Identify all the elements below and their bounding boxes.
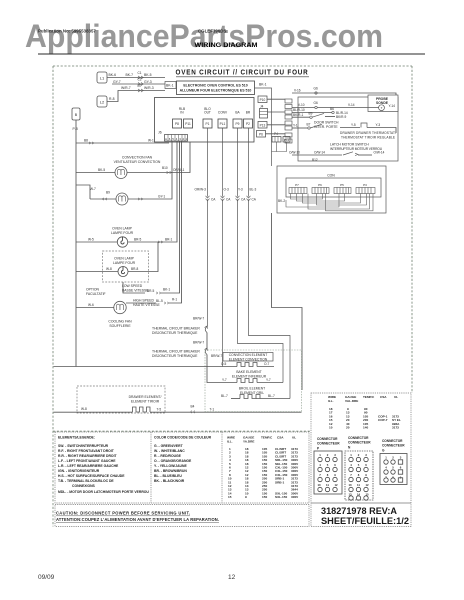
svg-text:Y-7: Y-7	[266, 378, 271, 382]
svg-text:GY-7: GY-7	[113, 80, 121, 84]
svg-text:P: P	[317, 447, 320, 451]
svg-text:T-1: T-1	[210, 408, 215, 412]
svg-text:ELEMENT CONVECTION: ELEMENT CONVECTION	[229, 357, 268, 361]
footer	[38, 574, 236, 581]
EOC right pin column	[285, 99, 292, 143]
svg-text:ELEMENTS/LEGENDE:: ELEMENTS/LEGENDE:	[58, 436, 95, 440]
svg-text:3: 3	[179, 137, 181, 141]
svg-text:1: 1	[385, 456, 387, 460]
svg-text:BR/W-7: BR/W-7	[193, 341, 204, 345]
svg-text:12: 12	[365, 483, 369, 487]
svg-text:THERMAL CIRCUIT BREAKER: THERMAL CIRCUIT BREAKER	[152, 350, 200, 354]
svg-text:6: 6	[365, 463, 367, 467]
drawer element heater	[133, 407, 151, 412]
convection heater	[237, 363, 257, 367]
svg-text:DRAWER ELEMENT/: DRAWER ELEMENT/	[129, 395, 162, 399]
svg-text:WIRING DIAGRAM: WIRING DIAGRAM	[195, 42, 258, 49]
svg-text:O-7: O-7	[264, 362, 270, 366]
svg-text:12: 12	[334, 483, 338, 487]
svg-text:ELEMENT TIROIR: ELEMENT TIROIR	[131, 400, 160, 404]
svg-text:BK-6: BK-6	[109, 73, 117, 77]
fuse symbol	[361, 123, 367, 128]
svg-text:ILL.: ILL.	[227, 440, 233, 444]
svg-text:OR/W-1: OR/W-1	[173, 168, 185, 172]
svg-text:BL-5: BL-5	[156, 299, 163, 303]
svg-text:L2: L2	[100, 100, 105, 105]
svg-text:9: 9	[334, 473, 336, 477]
con box	[286, 178, 381, 197]
wire L1 to EOC	[107, 77, 165, 79]
thermal breaker 2	[205, 349, 207, 355]
svg-text:BR/W-7: BR/W-7	[211, 354, 222, 358]
con routing loops	[286, 194, 373, 211]
wire PL1 drop	[222, 128, 224, 367]
svg-text:B: B	[75, 113, 78, 117]
svg-text:ELEMENT INFERIEUR: ELEMENT INFERIEUR	[232, 374, 267, 378]
svg-text:9: 9	[365, 473, 367, 477]
connector P11b	[283, 137, 290, 143]
right info box	[311, 393, 411, 527]
svg-text:OR/W-3: OR/W-3	[195, 188, 207, 192]
svg-text:FACULTATIF: FACULTATIF	[86, 292, 106, 296]
svg-text:P5: P5	[340, 183, 344, 187]
breaker L1	[97, 72, 107, 83]
svg-text:DOOR SWITCH: DOOR SWITCH	[314, 120, 339, 124]
svg-text:BK-1: BK-1	[163, 288, 170, 292]
svg-text:L1: L1	[100, 76, 105, 81]
top circuit area	[97, 68, 309, 167]
door switch blade	[312, 113, 324, 117]
wire fan2 to J6	[128, 141, 172, 199]
svg-text:BR: BR	[246, 111, 251, 115]
svg-text:Y-3: Y-3	[376, 123, 381, 127]
wire L2	[107, 91, 165, 102]
svg-text:3: 3	[334, 453, 336, 457]
connector CA 4	[247, 197, 251, 200]
wire lamp2 left	[76, 271, 118, 273]
svg-text:B8: B8	[84, 139, 88, 143]
svg-text:6: 6	[169, 137, 171, 141]
connector G diagram	[382, 439, 405, 453]
svg-text:P7: P7	[295, 183, 299, 187]
wire lamp1 left	[76, 241, 117, 243]
svg-text:N: N	[348, 446, 351, 450]
thermal breaker 1	[205, 327, 207, 333]
drawer element wires	[54, 411, 133, 413]
svg-text:O-3: O-3	[224, 188, 230, 192]
border top	[53, 65, 412, 67]
watermark	[25, 18, 383, 54]
svg-text:P6: P6	[259, 133, 263, 137]
svg-text:3: 3	[400, 456, 402, 460]
svg-text:SHEET/FEUILLE:1/2: SHEET/FEUILLE:1/2	[321, 516, 409, 526]
svg-text:OVEN LAMP: OVEN LAMP	[114, 257, 135, 261]
svg-text:G: G	[382, 449, 385, 453]
svg-text:318271978 REV:A: 318271978 REV:A	[321, 506, 398, 516]
svg-text:140: 140	[363, 426, 368, 430]
svg-text:11: 11	[357, 483, 360, 487]
svg-text:CSA: CSA	[380, 395, 387, 399]
caution box	[55, 505, 309, 527]
broil wire left stub	[231, 398, 240, 400]
switch area box	[298, 97, 398, 161]
svg-text:ELECTRONIC OVEN CONTROL ES 510: ELECTRONIC OVEN CONTROL ES 510	[183, 84, 247, 88]
svg-text:SXL-150: SXL-150	[275, 495, 287, 499]
svg-text:DISJONCTEUR THERMIQUE: DISJONCTEUR THERMIQUE	[152, 331, 198, 335]
svg-text:8: 8	[327, 473, 329, 477]
header rule	[38, 53, 425, 55]
wire P9 drop	[238, 128, 284, 383]
svg-text:5: 5	[327, 463, 329, 467]
svg-text:LATCH MOTOR SWITCH: LATCH MOTOR SWITCH	[330, 142, 369, 146]
svg-text:BASSE VITESSE: BASSE VITESSE	[122, 289, 149, 293]
svg-text:3: 3	[365, 453, 367, 457]
svg-text:HIGH SPEED: HIGH SPEED	[133, 299, 154, 303]
connector P13	[258, 122, 267, 129]
svg-text:2: 2	[327, 453, 329, 457]
svg-text:CONNECTEUR: CONNECTEUR	[317, 442, 340, 446]
svg-text:SOUFFLERIE: SOUFFLERIE	[109, 324, 131, 328]
svg-text:2: 2	[358, 453, 360, 457]
svg-text:P10: P10	[260, 98, 266, 102]
svg-text:5: 5	[392, 466, 394, 470]
svg-text:ATTENTION:COUPEZ L'ALIMENTATIO: ATTENTION:COUPEZ L'ALIMENTATION AVANT D'…	[56, 517, 219, 522]
svg-text:BK-5: BK-5	[98, 168, 105, 172]
broil heater	[240, 395, 260, 399]
convection wire left	[54, 366, 238, 368]
mini gauge table	[328, 395, 401, 430]
optional lamp dashed box	[103, 251, 149, 282]
svg-text:BK. - BLACK/NOIR: BK. - BLACK/NOIR	[154, 479, 185, 483]
svg-text:CGLEF396DS: CGLEF396DS	[198, 29, 226, 34]
svg-text:TEMP.C: TEMP.C	[363, 395, 375, 399]
svg-text:A: A	[165, 137, 167, 141]
svg-text:VENTILATEUR CONVECTION: VENTILATEUR CONVECTION	[114, 160, 161, 164]
svg-text:10: 10	[317, 483, 321, 487]
svg-text:UL: UL	[292, 436, 296, 440]
svg-text:BL. - BLUE/BLEU: BL. - BLUE/BLEU	[154, 474, 182, 478]
svg-text:CONNECTOR: CONNECTOR	[382, 439, 403, 443]
connector P6	[257, 131, 266, 138]
svg-text:P1: P1	[206, 122, 210, 126]
svg-text:L.R. - LEFT REAR/ARRIERE GAUCH: L.R. - LEFT REAR/ARRIERE GAUCHE	[58, 464, 119, 468]
svg-text:2: 2	[392, 456, 394, 460]
wire gauge table	[227, 436, 299, 500]
svg-text:15: 15	[228, 495, 232, 499]
wires P10/P13/P6 to column	[266, 99, 287, 151]
svg-text:3173: 3173	[392, 426, 399, 430]
svg-text:P-8: P-8	[73, 127, 78, 131]
svg-text:5: 5	[358, 463, 360, 467]
svg-text:CSA: CSA	[277, 436, 284, 440]
svg-text:Y-5: Y-5	[351, 123, 356, 127]
svg-text:T.B. - TERMINAL BLOCK/BLOC DE: T.B. - TERMINAL BLOCK/BLOC DE	[58, 479, 114, 483]
latch switch blade	[343, 152, 353, 155]
wire BL/R-10	[292, 112, 332, 114]
svg-text:R-8: R-8	[109, 97, 115, 101]
svg-text:CON: CON	[327, 174, 335, 178]
svg-text:BL-3: BL-3	[250, 188, 257, 192]
svg-text:HAUTE VITESSE: HAUTE VITESSE	[133, 303, 160, 307]
svg-text:W/R-7: W/R-7	[121, 86, 131, 90]
svg-text:TEMP.C: TEMP.C	[261, 436, 273, 440]
wire row 2	[112, 83, 165, 85]
svg-text:BL-7: BL-7	[221, 394, 228, 398]
svg-text:P2: P2	[246, 122, 250, 126]
svg-text:P3: P3	[363, 183, 367, 187]
svg-text:7: 7	[350, 473, 352, 477]
wire V-16	[292, 93, 396, 95]
svg-text:SW. - SWITCH/INTERRUPTEUR: SW. - SWITCH/INTERRUPTEUR	[58, 444, 109, 448]
con outer box	[277, 166, 386, 213]
svg-text:1: 1	[319, 453, 321, 457]
drawer element dashed box	[77, 386, 165, 413]
svg-text:COLOR CODE/CODE DE COULEUR: COLOR CODE/CODE DE COULEUR	[154, 436, 212, 440]
breaker L2	[97, 96, 107, 107]
svg-text:W/R-3: W/R-3	[144, 86, 154, 90]
EOC title box	[177, 81, 255, 95]
svg-text:R. - RED/ROUGE: R. - RED/ROUGE	[154, 454, 182, 458]
svg-text:Y. - YELLOW/JAUNE: Y. - YELLOW/JAUNE	[154, 464, 187, 468]
svg-text:BL/R-10: BL/R-10	[293, 108, 305, 112]
bottom bus wire	[150, 411, 302, 413]
svg-text:20: 20	[346, 426, 350, 430]
svg-text:C2: C2	[138, 78, 142, 82]
wire CON return	[272, 213, 303, 390]
svg-text:W. - WHITE/BLANC: W. - WHITE/BLANC	[154, 449, 185, 453]
svg-text:4: 4	[319, 463, 321, 467]
wire lamp2 right	[128, 242, 158, 272]
svg-text:T-5: T-5	[157, 408, 162, 412]
svg-text:OUT: OUT	[204, 111, 211, 115]
svg-text:DISJONCTEUR THERMIQUE: DISJONCTEUR THERMIQUE	[152, 354, 198, 358]
svg-text:B4: B4	[191, 405, 195, 409]
svg-text:UL: UL	[394, 395, 398, 399]
svg-text:V-16: V-16	[294, 89, 301, 93]
svg-text:C1: C1	[138, 71, 142, 75]
oven circuit title underline	[176, 76, 309, 78]
broil wire right	[256, 398, 290, 400]
wire B8 bus row	[76, 142, 169, 144]
svg-text:BR-5: BR-5	[147, 289, 154, 293]
svg-text:L.F. - LEFT FRONT/AVANT GAUCHE: L.F. - LEFT FRONT/AVANT GAUCHE	[58, 459, 116, 463]
wire Y-1 latch switch	[292, 127, 308, 129]
connector CA 3	[236, 197, 240, 200]
svg-text:O/W-14: O/W-14	[314, 150, 325, 154]
svg-text:THERMAL CIRCUIT BREAKER: THERMAL CIRCUIT BREAKER	[152, 327, 200, 331]
border bottom	[53, 430, 311, 432]
svg-text:OVEN LAMP: OVEN LAMP	[112, 227, 133, 231]
svg-text:G6: G6	[314, 101, 318, 105]
svg-text:CONNECTEUR: CONNECTEUR	[348, 441, 371, 445]
svg-text:D7: D7	[138, 84, 142, 88]
svg-text:COOLING FAN: COOLING FAN	[108, 320, 132, 324]
right switch area	[289, 87, 398, 162]
svg-text:G. - GREEN/VERT: G. - GREEN/VERT	[154, 444, 184, 448]
wire cooling fan left	[76, 307, 114, 309]
svg-text:CA: CA	[241, 198, 246, 202]
svg-text:BL-7: BL-7	[268, 394, 275, 398]
wire lamp1 right	[128, 141, 177, 242]
svg-text:LAMPE FOUR: LAMPE FOUR	[111, 231, 134, 235]
border right	[411, 66, 413, 393]
svg-text:T: T	[381, 106, 383, 110]
wire fan1 to EOC	[127, 142, 190, 173]
outer dashed border	[53, 66, 412, 527]
svg-text:W-1: W-1	[148, 139, 154, 143]
wire P1 drop	[207, 128, 209, 327]
connector P10	[258, 96, 267, 103]
svg-text:CAUTION: DISCONNECT POWER BEFO: CAUTION: DISCONNECT POWER BEFORE SERVICI…	[56, 511, 190, 516]
svg-text:Publication No: 5995538357: Publication No: 5995538357	[38, 29, 96, 34]
con area	[277, 166, 386, 213]
svg-text:COP-7: COP-7	[378, 418, 388, 422]
connector CA 1	[206, 197, 210, 200]
lower fan motor	[116, 193, 128, 205]
svg-text:OPTION: OPTION	[86, 288, 100, 292]
svg-text:BR-5: BR-5	[134, 238, 141, 242]
neutral bus wire	[75, 120, 77, 367]
svg-text:P9: P9	[236, 122, 240, 126]
svg-text:BK-2: BK-2	[278, 199, 285, 203]
svg-text:5: 5	[172, 137, 174, 141]
wire BK/R-1 door switch	[292, 116, 310, 118]
legend divider 1	[150, 432, 152, 503]
svg-text:SRB-1: SRB-1	[275, 480, 285, 484]
svg-text:O-5: O-5	[221, 362, 227, 366]
EOC label box BK-1	[165, 82, 176, 89]
svg-text:4: 4	[385, 466, 387, 470]
svg-text:W-6: W-6	[88, 303, 94, 307]
probe sensor	[379, 105, 385, 111]
svg-text:BR/W-7: BR/W-7	[193, 317, 204, 321]
svg-text:PL1: PL1	[220, 122, 226, 126]
svg-text:O. - ORANGE/ORANGE: O. - ORANGE/ORANGE	[154, 459, 192, 463]
svg-text:BK-7: BK-7	[126, 73, 134, 77]
convection fan motor	[115, 167, 127, 179]
svg-text:BK-1: BK-1	[166, 84, 174, 88]
svg-text:P8: P8	[175, 122, 179, 126]
svg-text:H.S. - HOT SURFACE/SURFACE CHA: H.S. - HOT SURFACE/SURFACE CHAUDE	[58, 474, 125, 478]
svg-text:IGN. - IGNITOR/IGNITEUR: IGN. - IGNITOR/IGNITEUR	[58, 469, 100, 473]
svg-text:W-8: W-8	[81, 407, 87, 411]
convection wire right	[257, 366, 274, 368]
svg-text:IN: IN	[180, 111, 184, 115]
svg-text:Y-14: Y-14	[389, 104, 396, 108]
bake wire right	[257, 382, 283, 384]
wire BK-1 to CON	[255, 88, 272, 166]
svg-text:150: 150	[262, 495, 267, 499]
svg-text:MDL. - MOTOR DOOR LATCH/MOTEUR: MDL. - MOTOR DOOR LATCH/MOTEUR PORTE VER…	[58, 490, 149, 494]
svg-text:GY-3: GY-3	[144, 80, 152, 84]
svg-text:7: 7	[319, 473, 321, 477]
color code column	[154, 436, 212, 484]
svg-text:W-8: W-8	[106, 267, 112, 271]
legend box	[55, 432, 309, 503]
svg-text:6: 6	[400, 466, 402, 470]
cooling fan motor	[114, 301, 126, 313]
connector N diagram	[348, 436, 371, 450]
wire V-10	[292, 107, 379, 109]
EOC body box	[155, 98, 255, 143]
svg-text:CA: CA	[211, 198, 216, 202]
bottom tables	[55, 393, 411, 527]
svg-text:11: 11	[326, 483, 329, 487]
svg-text:2: 2	[183, 137, 185, 141]
svg-text:OVEN CIRCUIT // CIRCUIT DU FOU: OVEN CIRCUIT // CIRCUIT DU FOUR	[176, 68, 309, 77]
svg-text:O/W-10: O/W-10	[289, 150, 300, 154]
svg-text:BA: BA	[235, 111, 240, 115]
svg-text:R.R. - RIGHT REAR/ARRIERE DROI: R.R. - RIGHT REAR/ARRIERE DROIT	[58, 454, 118, 458]
svg-text:O/W-14: O/W-14	[374, 150, 385, 154]
svg-text:B9: B9	[309, 112, 313, 116]
legend column text	[58, 436, 149, 495]
svg-text:ALLUMEUR FOUR ELECTRONIQUE ES: ALLUMEUR FOUR ELECTRONIQUE ES 510	[180, 89, 252, 93]
svg-text:ILL.: ILL.	[328, 399, 334, 403]
svg-text:BR. - BROWN/BRUN: BR. - BROWN/BRUN	[154, 469, 187, 473]
svg-text:CONNECTOR: CONNECTOR	[348, 436, 369, 440]
svg-text:300V: 300V	[291, 495, 299, 499]
wire O/W latch	[292, 154, 342, 156]
left components	[54, 108, 302, 413]
svg-text:P11: P11	[185, 122, 191, 126]
svg-text:1: 1	[350, 453, 352, 457]
svg-text:B10: B10	[162, 166, 168, 170]
connector P diagram	[317, 437, 340, 451]
svg-text:J4: J4	[260, 105, 264, 109]
svg-text:J6: J6	[158, 131, 162, 135]
svg-text:CA: CA	[226, 198, 231, 202]
part number box	[311, 502, 411, 504]
svg-text:BK/R-9: BK/R-9	[336, 115, 347, 119]
probe box	[368, 95, 398, 112]
svg-text:W-5: W-5	[88, 238, 94, 242]
border left	[52, 66, 54, 527]
svg-text:Y-7: Y-7	[222, 378, 227, 382]
svg-text:BR-1: BR-1	[165, 238, 172, 242]
svg-text:B7: B7	[307, 122, 311, 126]
legend divider 2	[221, 432, 223, 503]
svg-text:6: 6	[334, 463, 336, 467]
svg-text:BK/R-1: BK/R-1	[293, 113, 304, 117]
svg-text:8: 8	[358, 473, 360, 477]
svg-text:4: 4	[176, 137, 178, 141]
svg-text:Y-1: Y-1	[293, 124, 298, 128]
svg-text:LOW SPEED: LOW SPEED	[122, 284, 143, 288]
svg-text:R.F. - RIGHT FRONT/AVANT DROIT: R.F. - RIGHT FRONT/AVANT DROIT	[58, 449, 115, 453]
wire fan2 left	[90, 198, 116, 200]
svg-text:B6: B6	[330, 107, 334, 111]
svg-text:BK-5: BK-5	[144, 73, 152, 77]
svg-text:09/09: 09/09	[38, 574, 55, 581]
svg-text:Y-3: Y-3	[238, 188, 243, 192]
svg-text:B9: B9	[106, 191, 110, 195]
svg-text:V-14: V-14	[348, 103, 355, 107]
svg-text:DRAWER DRAWER THERMOSTAT/: DRAWER DRAWER THERMOSTAT/	[340, 131, 396, 135]
svg-text:P13: P13	[260, 124, 266, 128]
connector CA 2	[221, 197, 225, 200]
svg-text:CONVECTION FAN: CONVECTION FAN	[122, 156, 153, 160]
svg-text:CONNECTOR: CONNECTOR	[317, 437, 338, 441]
svg-text:BR-8: BR-8	[131, 267, 138, 271]
connector B box	[72, 108, 80, 120]
svg-text:12: 12	[228, 574, 236, 581]
svg-text:10: 10	[329, 426, 333, 430]
wire P2 drop	[249, 128, 291, 399]
svg-text:SONDE: SONDE	[376, 101, 389, 105]
bake heater	[237, 379, 257, 383]
svg-text:VAL.DRE: VAL.DRE	[345, 399, 358, 403]
